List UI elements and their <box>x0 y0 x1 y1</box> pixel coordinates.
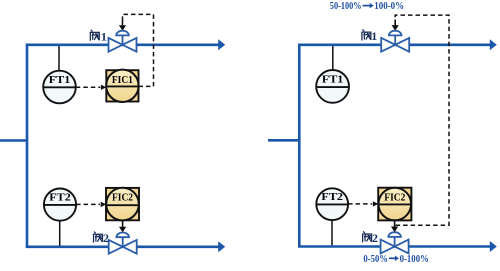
wire: feed stub (right inlet pipe) <box>268 139 299 142</box>
wire: feed stub (left inlet pipe) <box>0 139 27 142</box>
wire: FT1 process tap (right) <box>332 46 334 70</box>
wire: dashed signal FIC1 to valve 1 actuator <box>119 14 154 86</box>
transmitter FT2 (right) <box>316 188 348 220</box>
svg-text:1: 1 <box>101 29 107 43</box>
valve 阀1 (left): actuator <box>116 31 129 45</box>
wire: top pipe run (right) to arrow <box>298 39 497 50</box>
svg-text:FIC2: FIC2 <box>384 191 405 203</box>
svg-text:FT1: FT1 <box>322 73 344 85</box>
svg-text:2: 2 <box>372 231 378 245</box>
wire: bottom pipe run (left) to arrow <box>26 241 226 252</box>
svg-text:FT1: FT1 <box>49 74 71 86</box>
wire: dashed signal FT1 to FIC1 <box>76 85 107 90</box>
svg-text:0-100%: 0-100% <box>400 253 429 265</box>
transmitter FT1 (left) <box>43 71 76 104</box>
wire: FT1 process tap (left) <box>58 46 60 71</box>
controller FIC2 (left) <box>106 188 139 221</box>
label 阀1 (left) <box>90 29 107 43</box>
label 阀2 (right) <box>363 231 378 245</box>
svg-text:1: 1 <box>371 29 377 43</box>
svg-text:FIC2: FIC2 <box>112 192 133 204</box>
wire: dashed signal FT2 to FIC2 (left) <box>76 202 106 207</box>
valve 阀2 (left): actuator <box>116 233 129 247</box>
valve 阀1 (left): body <box>109 38 137 52</box>
svg-text:FIC1: FIC1 <box>112 74 133 86</box>
wire: FT2 process tap (right) <box>331 220 333 245</box>
svg-text:2: 2 <box>103 231 109 245</box>
wire: signal FIC2 to valve 2 actuator (left) <box>119 220 126 232</box>
svg-text:FT2: FT2 <box>49 192 71 204</box>
wire: bottom pipe run (right) to arrow <box>298 241 497 252</box>
transmitter FT1 (right) <box>316 70 349 103</box>
label 阀2 (left) <box>94 231 109 245</box>
valve 阀1 (right): actuator <box>389 31 402 45</box>
wire: dashed signal FT2 to FIC2 (right) <box>348 201 378 206</box>
wire: dashed split-range signal FIC2 to valve 1 (right) <box>392 15 449 225</box>
wire: main vertical pipe (right) <box>298 45 301 247</box>
label 阀1 (right) <box>362 29 377 43</box>
controller FIC1 <box>106 70 138 102</box>
valve 阀1 (right): body <box>381 38 409 52</box>
wire: top pipe run (left) to arrow <box>26 39 226 50</box>
valve 阀2 (left): body <box>109 240 137 254</box>
wire: main vertical pipe (left) <box>26 45 29 247</box>
transmitter FT2 (left) <box>44 189 76 221</box>
annotation: split range 0-50% -> 0-100% <box>363 253 429 265</box>
valve 阀2 (right): body <box>381 240 409 254</box>
wire: FT2 process tap (left) <box>59 221 61 246</box>
controller FIC2 (right) <box>378 188 411 221</box>
valve 阀2 (right): actuator <box>388 232 401 246</box>
svg-text:FT2: FT2 <box>321 191 343 203</box>
annotation: split range 50-100% -> 100-0% <box>330 0 404 12</box>
svg-text:0-50%: 0-50% <box>363 253 388 265</box>
svg-text:50-100%: 50-100% <box>330 0 362 12</box>
svg-text:100-0%: 100-0% <box>374 0 404 12</box>
wire: signal FIC2 to valve 2 actuator (right) <box>391 220 398 232</box>
